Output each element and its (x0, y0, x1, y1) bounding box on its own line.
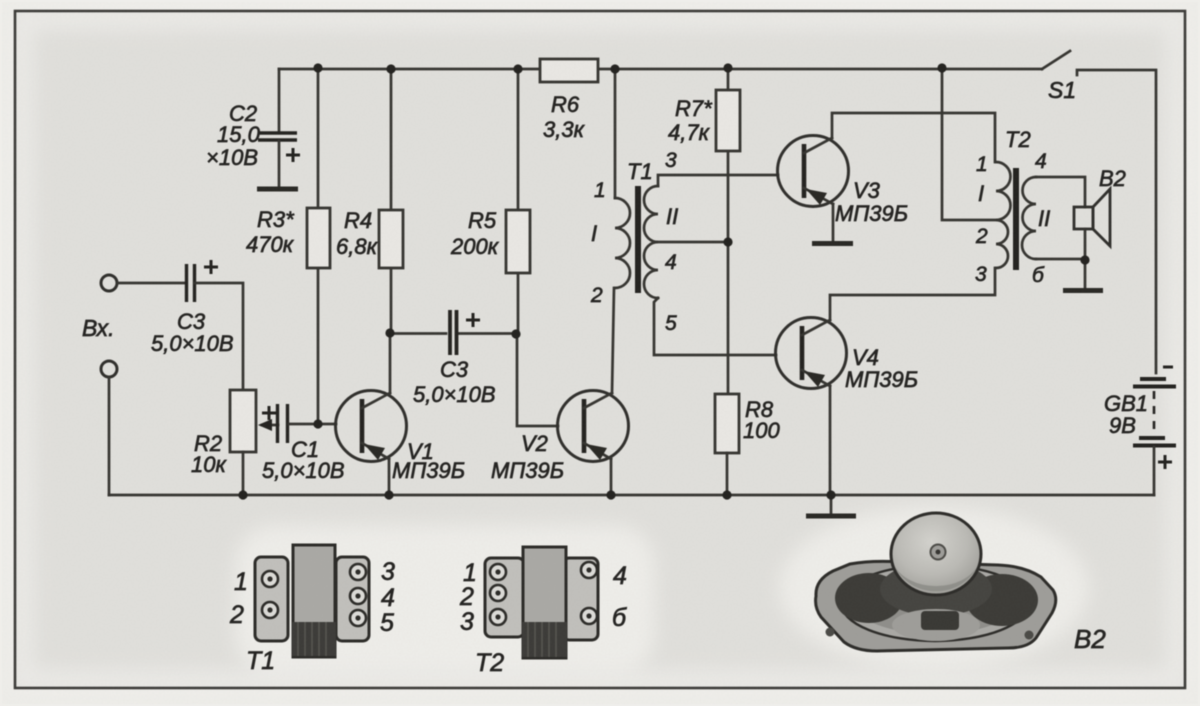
wire b to ground (1084, 261, 1087, 288)
T2 primary winding I (996, 162, 1010, 268)
battery GB1 (1104, 367, 1176, 495)
halo behind speaker photo (779, 506, 1089, 670)
wire top rail (279, 68, 1042, 71)
wire bottom rail (109, 494, 1154, 497)
junction R2 bottom rail (238, 490, 247, 499)
input terminal 1 (101, 275, 117, 291)
junction T1 pin4 / R7 / R8 (723, 237, 732, 246)
ground bottom (830, 495, 833, 514)
resistor R3 (246, 69, 330, 424)
wire V3 emitter (832, 204, 835, 241)
wire V4 collector to T2 pin3 (830, 268, 995, 320)
T1 secondary winding II (644, 186, 658, 298)
wire V1 emitter (388, 459, 391, 495)
junction R7 top rail (723, 63, 732, 72)
wire to V2 base (517, 334, 558, 426)
T1 core (635, 186, 641, 293)
wire T1 pin4 tap (658, 241, 728, 244)
junction R3 top rail (313, 63, 322, 72)
junction R8 bottom rail (722, 490, 731, 499)
junction T2 tap top rail (937, 63, 946, 72)
wire rail to T2 tap (942, 68, 996, 220)
wire input top (117, 282, 186, 285)
wire C2 drop (278, 69, 281, 133)
wire terminal2 down (108, 377, 111, 495)
ground V3 (812, 241, 853, 246)
potentiometer R2 (191, 390, 278, 495)
junction T1 pin1 top rail (610, 64, 619, 73)
resistor R6 (540, 59, 598, 142)
wire T2 pin b (1036, 258, 1085, 261)
transistor V1 (336, 391, 466, 484)
resistor R8 (715, 394, 780, 495)
resistor R5 (450, 69, 530, 334)
input terminal 2 (101, 361, 117, 377)
transformer T1 physical drawing (229, 545, 395, 675)
speaker B2 symbol (1074, 166, 1126, 259)
capacitor C3 input (151, 260, 234, 356)
junction R3 / V1 base (313, 419, 322, 428)
junction V1 emitter bottom rail (384, 490, 393, 499)
wire node A row (390, 332, 517, 335)
speaker B2 photo (816, 513, 1107, 654)
wire V2 collector / T1 pin2 (612, 288, 614, 393)
wire C3 to R2 (195, 283, 243, 390)
wire T1 pin5 (654, 298, 776, 355)
transistor V3 (778, 136, 909, 227)
junction V1 collector / C3 (385, 328, 394, 337)
ground T2 (1063, 288, 1103, 293)
T2 core (1013, 168, 1019, 270)
transformer T1 (590, 69, 778, 355)
junction V2 emitter bottom rail (606, 490, 615, 499)
junction speaker / ground (1080, 255, 1089, 264)
junction C3 / R5 / V2 base (511, 329, 520, 338)
wire V1 collector (389, 333, 392, 393)
halo behind T1 drawing (235, 525, 655, 675)
transistor V4 (776, 318, 919, 393)
transistor V2 (491, 391, 629, 484)
wire T1 pin1 (614, 69, 617, 198)
capacitor C3 interstage (413, 310, 496, 407)
wire S1 right segment (1077, 70, 1156, 373)
T1 primary winding I (615, 198, 630, 288)
transformer T2 (975, 127, 1085, 287)
wire V4 emitter (829, 386, 832, 495)
wire T1 pin3 (658, 175, 778, 186)
capacitor C2 (206, 101, 300, 189)
wire T2 pin4 (1036, 177, 1085, 207)
transformer T2 physical drawing (459, 547, 627, 677)
junction R5 top rail (513, 64, 522, 73)
wire V2 emitter (610, 459, 613, 495)
wire C1 to V1 base (289, 423, 336, 426)
resistor R4 (336, 69, 403, 333)
junction V4 emitter bottom rail (826, 490, 835, 499)
capacitor C1 (262, 404, 345, 483)
wire V3 collector to T2 pin1 (832, 113, 995, 162)
resistor R7 (668, 68, 740, 394)
switch S1 (1042, 51, 1070, 69)
T2 secondary winding II (1022, 177, 1036, 259)
junction R4 top rail (386, 64, 395, 73)
